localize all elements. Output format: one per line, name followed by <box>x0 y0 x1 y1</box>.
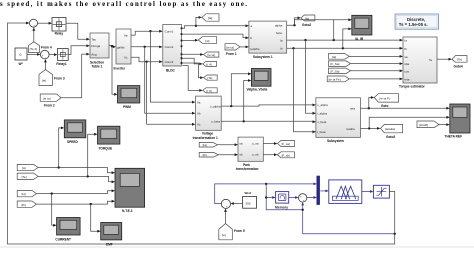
wire motor out8 to goto t3 <box>182 66 201 91</box>
svg-text:THETA REF: THETA REF <box>445 134 463 138</box>
goto tag [teta ref] Goto3 <box>380 124 402 132</box>
svg-text:CURRENT: CURRENT <box>55 237 71 241</box>
svg-text:[Te 4]: [Te 4] <box>30 47 38 51</box>
svg-text:+: + <box>303 199 305 203</box>
svg-text:From 3: From 3 <box>54 77 65 81</box>
svg-text:Va: Va <box>124 33 128 37</box>
scope Valpha Vbeta <box>251 69 271 87</box>
svg-text:[Te]: [Te] <box>22 175 27 179</box>
block Voltage transformation <box>196 96 222 130</box>
goto tag [F_sb] <box>277 152 294 158</box>
goto tag [F_sa] <box>277 141 294 147</box>
svg-text:[te ta]: [te ta] <box>226 45 234 49</box>
svg-text:IA, IB: IA, IB <box>355 37 364 41</box>
svg-text:teta/Fe: teta/Fe <box>250 47 260 51</box>
svg-text:Discrete,: Discrete, <box>407 17 425 22</box>
svg-text:[te ta]: [te ta] <box>43 96 51 100</box>
scope CURRENT <box>57 218 81 236</box>
From tag [F_Sa] <box>328 61 350 67</box>
svg-text:s speed, it makes the overall: s speed, it makes the overall control lo… <box>0 1 247 8</box>
svg-text:[w]: [w] <box>206 39 210 43</box>
wire 0 to S2 <box>27 53 39 55</box>
junction bus1 i_alpha riser <box>304 39 306 41</box>
block BLDC motor <box>163 24 182 66</box>
svg-text:[tetaFe]: [tetaFe] <box>385 127 395 131</box>
From tag [Ia] estim <box>328 54 349 60</box>
wire riser to TORQUE scope <box>88 134 96 176</box>
svg-text:sba: sba <box>404 62 409 66</box>
svg-text:Goto3: Goto3 <box>386 135 395 139</box>
svg-text:o_sa: o_sa <box>252 141 259 145</box>
wire to park in1 <box>218 144 237 146</box>
svg-text:Goto: Goto <box>381 104 388 108</box>
wire S1 to Relay <box>38 22 51 24</box>
wire to memory in <box>266 197 274 199</box>
wire Vb riser <box>145 47 194 113</box>
svg-text:EMF: EMF <box>106 243 113 247</box>
svg-text:From 2: From 2 <box>44 104 55 108</box>
svg-text:Ang: Ang <box>91 52 97 56</box>
svg-text:Park: Park <box>243 163 250 167</box>
block Selection Table 1 <box>90 33 109 58</box>
wire memory to S4 <box>289 197 297 199</box>
scope EMF <box>101 223 122 240</box>
wire estim out2 <box>361 127 379 129</box>
svg-text:Subsystem 1: Subsystem 1 <box>253 55 273 59</box>
svg-text:Va: Va <box>197 100 201 104</box>
svg-text:[Ib]: [Ib] <box>22 203 26 207</box>
scope Ia Ib <box>352 15 372 35</box>
block Memory <box>276 192 289 204</box>
wire From2 to table in3 <box>61 54 88 98</box>
svg-text:Ts = 1.5e-05 s.: Ts = 1.5e-05 s. <box>399 22 428 27</box>
svg-text:[w]: [w] <box>22 166 26 170</box>
wire error drop <box>266 184 303 210</box>
wire table to inverter <box>109 46 115 47</box>
svg-text:[F_sb]: [F_sb] <box>282 153 291 157</box>
svg-text:Inverter: Inverter <box>114 66 126 70</box>
scope TORQUE <box>98 126 120 144</box>
svg-text:[Te]: [Te] <box>457 57 462 61</box>
wire motor out2 to Subsystem1 in2 <box>182 34 247 38</box>
scope PWM <box>118 86 140 103</box>
svg-text:From 1: From 1 <box>226 52 237 56</box>
svg-text:alpha: alpha <box>275 24 283 28</box>
svg-text:v_alpha: v_alpha <box>210 104 221 108</box>
wire out1 branch to scope IaIb in1 <box>293 24 295 26</box>
svg-text:Conv2: Conv2 <box>165 45 174 49</box>
svg-text:-: - <box>31 20 32 24</box>
wire tap to PWM scope <box>112 47 116 95</box>
From tag [Ib] park <box>199 153 218 158</box>
scope NTE3 <box>115 168 145 207</box>
wire to theta scope in3 <box>439 124 448 126</box>
wire Relay to table in1 <box>66 23 88 39</box>
wire Wref to S3 <box>232 203 243 205</box>
wire to park in2 <box>218 154 236 156</box>
svg-text:Vc: Vc <box>197 123 201 127</box>
svg-text:-: - <box>45 56 46 60</box>
svg-text:beta: beta <box>276 31 282 35</box>
wire w to NTE3 in1 <box>38 168 113 173</box>
wire scope IaIb riser2 <box>343 29 351 48</box>
wire to goto Ia <box>196 17 201 25</box>
wire riser to EMF scope <box>91 204 100 231</box>
goto tag [Te] <box>204 75 218 80</box>
svg-text:Table 1: Table 1 <box>92 64 103 68</box>
wire fuzzy to saturation <box>362 191 372 193</box>
svg-text:[w]: [w] <box>222 233 226 237</box>
From2 tag [te ta] <box>40 94 61 101</box>
wire motor out3 to goto w <box>182 40 196 42</box>
wire tap to scope Valpha in2 <box>244 81 250 122</box>
svg-text:[F_sa]: [F_sa] <box>282 142 291 146</box>
svg-text:[Te]: [Te] <box>208 76 213 80</box>
svg-text:SPEED: SPEED <box>67 140 79 144</box>
block Torque estimator <box>403 37 437 83</box>
svg-text:[te ta]: [te ta] <box>208 53 216 57</box>
svg-text:Goto4: Goto4 <box>454 65 463 69</box>
fuzzy loop: sum S3 <box>221 199 230 208</box>
svg-text:Ia: Ia <box>280 38 283 42</box>
sum S2 <box>41 50 50 59</box>
svg-text:Conv1: Conv1 <box>165 30 174 34</box>
svg-text:+: + <box>42 53 44 57</box>
wire motor out7 to goto Te <box>182 63 202 78</box>
svg-text:i_alpha: i_alpha <box>317 112 327 116</box>
svg-text:[F_Sa]: [F_Sa] <box>331 62 340 66</box>
wire riser to CURRENT scope <box>52 194 55 226</box>
wire inverter outB to motor Conv2 <box>131 46 161 48</box>
svg-text:teta: teta <box>350 107 355 111</box>
From tag [teta REF] <box>417 121 439 128</box>
svg-text:BLDC: BLDC <box>166 69 176 73</box>
svg-text:v_alpha: v_alpha <box>317 103 328 107</box>
junction bus2 scope riser <box>342 47 344 49</box>
relay Relay1 <box>58 49 69 61</box>
svg-text:transformation: transformation <box>236 167 259 171</box>
svg-text:Tau: Tau <box>91 37 96 41</box>
svg-text:N.T.E.3: N.T.E.3 <box>122 209 133 213</box>
svg-text:Conv3: Conv3 <box>165 60 174 64</box>
From tag [Ia] park <box>199 143 217 148</box>
svg-text:[te]: [te] <box>42 78 46 82</box>
From tag [Te] torque <box>17 173 38 179</box>
svg-text:Vc: Vc <box>124 56 128 60</box>
svg-text:[F_Sb]: [F_Sb] <box>331 69 340 73</box>
wire motor out1 to Subsystem1 in1 <box>182 26 247 29</box>
wire v_beta to estimator in3 <box>221 120 314 122</box>
From tag [Ib] emf <box>17 201 36 207</box>
scope SPEED <box>64 120 86 138</box>
goto tag [t 4] <box>203 61 217 66</box>
powergui Discrete box <box>395 14 438 29</box>
wire Relay1 to table in2 <box>68 46 88 55</box>
wire Te to NTE3 in2 <box>38 176 113 181</box>
svg-text:-: - <box>223 200 224 204</box>
wire Ib to NTE3 in4 <box>36 201 113 204</box>
svg-text:[Ia]: [Ia] <box>22 192 26 196</box>
block Saturation <box>373 185 389 198</box>
svg-text:sb: sb <box>239 153 243 157</box>
wire speed feedback loop <box>8 23 395 244</box>
wire to estimator in6 <box>349 78 401 80</box>
svg-text:Ib: Ib <box>404 47 407 51</box>
wire motor out6 to goto t4 <box>182 58 201 64</box>
svg-text:cos: cos <box>404 69 409 73</box>
svg-text:Subsystem: Subsystem <box>327 139 344 143</box>
svg-text:Fluxga: Fluxga <box>91 44 100 48</box>
From4 tag [Te 4] <box>33 29 35 42</box>
svg-text:[Ia]: [Ia] <box>208 16 212 20</box>
svg-text:Voltage: Voltage <box>202 132 214 136</box>
wire motor out5 to goto teta <box>182 53 202 55</box>
wire to estimator in4 <box>351 63 402 65</box>
svg-text:[Ib]: [Ib] <box>203 153 207 157</box>
scope THETA REF <box>450 104 470 133</box>
wire S3 out error <box>215 184 316 204</box>
svg-text:+: + <box>300 194 302 198</box>
junction saturation feedback <box>394 233 396 235</box>
svg-text:o_sb: o_sb <box>252 153 259 157</box>
document rule <box>0 246 474 248</box>
junction error to memory <box>265 183 267 185</box>
svg-text:sa: sa <box>239 141 243 145</box>
svg-text:v_beta: v_beta <box>317 120 326 124</box>
wire mux to fuzzy <box>320 190 327 192</box>
svg-text:Ib: Ib <box>280 47 283 51</box>
wire Te to Goto4 <box>437 58 450 60</box>
svg-text:TORQUE: TORQUE <box>99 147 113 151</box>
svg-text:Relay1: Relay1 <box>56 62 67 66</box>
wire Subsystem1 out1 to goto Iq <box>287 18 300 25</box>
wire riser to scope in2 <box>369 117 448 128</box>
svg-text:transformation 1: transformation 1 <box>193 136 218 140</box>
From tag [Ia] current <box>17 191 36 197</box>
From3 tag [te] <box>44 61 46 70</box>
svg-text:From 4: From 4 <box>41 45 52 49</box>
wire bus2 Subsystem1 out4 to torque estimator in2 <box>287 47 402 49</box>
svg-text:+: + <box>226 205 228 209</box>
goto tag [Te] Goto4 <box>452 56 467 63</box>
svg-text:[t 4]: [t 4] <box>207 63 212 67</box>
From tag [F_Sb] <box>328 68 350 74</box>
wire scope IaIb riser1 <box>333 20 335 40</box>
svg-text:tetaFe: tetaFe <box>347 127 356 131</box>
wire riser to SPEED scope <box>59 128 63 168</box>
svg-text:[Ia]: [Ia] <box>332 55 336 59</box>
wire estim out1 <box>361 107 449 109</box>
wire S4 to mux in2 <box>307 197 316 199</box>
junction bus1 scope riser <box>333 39 335 41</box>
svg-text:Te: Te <box>429 58 433 62</box>
constant 0 <box>15 48 27 60</box>
wire fuzzy feedback branch <box>303 204 395 234</box>
From5 tag [w] <box>225 210 227 224</box>
wire i_beta riser to estimator in4 <box>294 48 315 132</box>
wire Vc riser <box>147 62 194 125</box>
wire park out1 to goto F_sa <box>263 143 276 145</box>
svg-text:[tetaR]: [tetaR] <box>419 123 428 127</box>
block Fuzzy Logic Controller <box>329 180 362 204</box>
wire park out2 to goto F_sb <box>263 154 276 156</box>
svg-text:From 5: From 5 <box>234 229 245 233</box>
goto tag [w] <box>198 37 216 44</box>
goto tag [te ta] <box>204 52 219 57</box>
svg-text:v_beta: v_beta <box>211 120 220 124</box>
svg-text:[Ia]: [Ia] <box>203 143 207 147</box>
goto tag [Ia] <box>202 14 219 21</box>
relay Relay <box>52 18 66 32</box>
sum S4 <box>299 194 307 202</box>
block Park transformation <box>238 137 263 161</box>
svg-text:Relay: Relay <box>55 32 64 36</box>
wire to estimator in5 <box>351 70 402 72</box>
svg-text:Valpha, Vbeta: Valpha, Vbeta <box>247 88 268 92</box>
wire From1 to Subsystem1 in3 <box>240 46 247 48</box>
goto tag [te ta F] <box>374 94 398 102</box>
svg-text:[te ta Fe]: [te ta Fe] <box>329 78 341 82</box>
wire S2 to Relay1 <box>49 54 56 56</box>
From1 tag [te ta] <box>225 44 240 50</box>
junction bus2 i_beta riser <box>292 47 294 49</box>
svg-text:0: 0 <box>20 53 22 57</box>
wire i_alpha riser to estimator in2 <box>306 40 315 113</box>
sum S1 <box>30 19 38 27</box>
From tag [te ta Fe] <box>327 76 349 82</box>
svg-text:i_beta: i_beta <box>317 130 326 134</box>
svg-text:Memory: Memory <box>275 206 288 210</box>
svg-text:sa: sa <box>404 55 408 59</box>
svg-text:teta: teta <box>404 77 409 81</box>
wire riser to goto teta <box>369 98 373 109</box>
wire inverter outC to motor Conv3 <box>131 57 161 62</box>
wire Ia to NTE3 in3 <box>36 191 113 194</box>
svg-text:Wref: Wref <box>245 191 252 195</box>
goto tag [Iq] <box>301 15 315 21</box>
mux <box>317 176 319 204</box>
svg-text:+: + <box>34 24 36 28</box>
svg-text:Ia: Ia <box>404 39 407 43</box>
block Inverter <box>116 29 131 64</box>
wire Va riser <box>150 31 194 102</box>
svg-text:Goto2: Goto2 <box>302 23 311 27</box>
svg-text:gaWs: gaWs <box>117 45 125 49</box>
From tag [w] speed <box>17 164 38 170</box>
goto tag [t 3] <box>203 88 218 93</box>
wire bus1 Subsystem1 out3 to torque estimator in1 <box>287 39 402 41</box>
wire inverter outA to motor Conv1 <box>131 31 161 35</box>
wire tap to scope Valpha <box>231 74 250 106</box>
svg-text:[t 3]: [t 3] <box>207 89 212 93</box>
svg-text:Torque estimator: Torque estimator <box>399 85 426 89</box>
svg-text:550: 550 <box>246 202 251 206</box>
svg-text:[te ta F]: [te ta F] <box>380 97 390 101</box>
block Subsystem estimator <box>316 98 361 138</box>
svg-text:Vb: Vb <box>197 112 201 116</box>
block Subsystem 1 <box>249 21 287 53</box>
wire v_alpha to estimator in1 <box>221 105 314 106</box>
svg-text:PWM: PWM <box>123 105 131 109</box>
wire to estimator in3 <box>349 55 401 57</box>
